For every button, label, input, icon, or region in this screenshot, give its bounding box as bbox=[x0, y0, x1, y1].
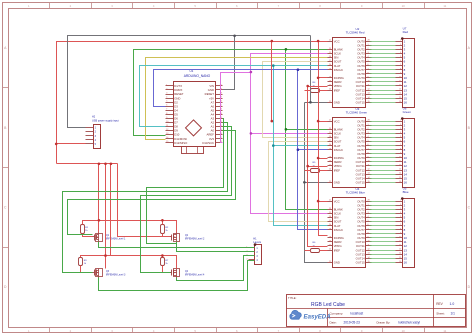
svg-text:3: 3 bbox=[400, 208, 401, 210]
svg-text:3: 3 bbox=[166, 93, 167, 95]
svg-text:Company:: Company: bbox=[330, 312, 344, 316]
svg-text:14: 14 bbox=[166, 137, 168, 139]
svg-text:20: 20 bbox=[329, 249, 331, 251]
arduino U1 right pins bbox=[202, 84, 222, 145]
svg-text:14: 14 bbox=[399, 93, 401, 95]
svg-text:19: 19 bbox=[329, 76, 331, 78]
svg-text:Date:: Date: bbox=[330, 321, 337, 325]
svg-text:VCC: VCC bbox=[334, 39, 340, 43]
svg-text:6: 6 bbox=[400, 220, 401, 222]
svg-text:11: 11 bbox=[399, 81, 401, 83]
svg-text:GND: GND bbox=[334, 261, 340, 265]
svg-text:16: 16 bbox=[329, 161, 331, 163]
svg-text:OUT15: OUT15 bbox=[356, 261, 365, 265]
svg-text:10: 10 bbox=[368, 161, 370, 163]
svg-text:9: 9 bbox=[368, 156, 369, 158]
svg-text:28: 28 bbox=[368, 40, 370, 42]
tlc5940 U2 body bbox=[333, 27, 366, 107]
svg-text:3: 3 bbox=[400, 48, 401, 50]
resistor R2 bbox=[161, 225, 165, 234]
svg-text:Sheet:: Sheet: bbox=[436, 312, 445, 316]
EasyEDA logo bbox=[290, 310, 331, 320]
wire IREF resistors to pins bbox=[305, 91, 328, 251]
svg-text:4: 4 bbox=[400, 132, 401, 134]
svg-text:10: 10 bbox=[402, 4, 406, 8]
svg-text:23: 23 bbox=[329, 128, 331, 130]
svg-text:localhost: localhost bbox=[351, 312, 364, 316]
wire H1 pin4 green bbox=[99, 261, 255, 291]
resistor R5 bbox=[311, 169, 320, 173]
svg-text:IRF9540N Level 4: IRF9540N Level 4 bbox=[185, 273, 205, 276]
title block bbox=[287, 295, 466, 327]
tlc5940 U2 left pins bbox=[328, 39, 344, 104]
svg-text:6: 6 bbox=[166, 105, 167, 107]
svg-text:26: 26 bbox=[329, 216, 331, 218]
wire H1 pin3 green bbox=[177, 256, 255, 281]
svg-text:16: 16 bbox=[404, 101, 408, 105]
connector H1 Layers bbox=[246, 237, 261, 265]
svg-text:Red: Red bbox=[403, 30, 409, 34]
svg-text:7: 7 bbox=[368, 228, 369, 230]
svg-text:13: 13 bbox=[399, 249, 401, 251]
svg-text:21: 21 bbox=[329, 40, 331, 42]
svg-text:10: 10 bbox=[402, 329, 406, 333]
svg-text:D13/SCK: D13/SCK bbox=[202, 141, 214, 145]
svg-text:9: 9 bbox=[400, 72, 401, 74]
svg-text:17: 17 bbox=[329, 220, 331, 222]
tlc5940 U4 right pins OUT0-OUT15 bbox=[356, 199, 372, 264]
svg-text:12: 12 bbox=[399, 165, 401, 167]
svg-text:25: 25 bbox=[329, 132, 331, 134]
svg-text:OUT15: OUT15 bbox=[356, 101, 365, 105]
svg-text:14: 14 bbox=[368, 177, 370, 179]
svg-text:13: 13 bbox=[166, 133, 168, 135]
svg-text:Green: Green bbox=[403, 110, 412, 114]
svg-text:4: 4 bbox=[400, 52, 401, 54]
svg-text:19: 19 bbox=[329, 236, 331, 238]
svg-text:16: 16 bbox=[399, 101, 401, 103]
svg-text:18: 18 bbox=[329, 228, 331, 230]
svg-text:10: 10 bbox=[399, 236, 401, 238]
resistor R4 bbox=[311, 89, 320, 93]
resistor R6 bbox=[311, 249, 320, 253]
svg-text:REV: REV bbox=[436, 302, 443, 306]
svg-text:12: 12 bbox=[368, 249, 370, 251]
svg-text:9: 9 bbox=[400, 232, 401, 234]
svg-text:IRF9540N Level 3: IRF9540N Level 3 bbox=[106, 273, 126, 276]
svg-text:8: 8 bbox=[400, 68, 401, 70]
transistor Q1 bbox=[93, 233, 103, 242]
svg-text:25: 25 bbox=[329, 212, 331, 214]
svg-text:TLC5940 Blue: TLC5940 Blue bbox=[346, 191, 366, 195]
resistor R1 bbox=[81, 225, 85, 234]
svg-text:7: 7 bbox=[400, 64, 401, 66]
svg-text:1: 1 bbox=[368, 124, 369, 126]
svg-text:4: 4 bbox=[166, 97, 167, 99]
svg-text:22: 22 bbox=[329, 101, 331, 103]
svg-text:6: 6 bbox=[368, 144, 369, 146]
svg-text:DSCLK: DSCLK bbox=[334, 148, 343, 152]
svg-text:8: 8 bbox=[400, 228, 401, 230]
svg-text:VCC: VCC bbox=[334, 119, 340, 123]
svg-text:10: 10 bbox=[368, 81, 370, 83]
svg-text:4: 4 bbox=[368, 56, 369, 58]
svg-text:20: 20 bbox=[329, 169, 331, 171]
svg-text:IREF: IREF bbox=[334, 248, 341, 252]
svg-text:4: 4 bbox=[368, 136, 369, 138]
svg-text:19: 19 bbox=[329, 156, 331, 158]
svg-text:2: 2 bbox=[400, 204, 401, 206]
wire layer A2 green bbox=[63, 123, 228, 273]
svg-text:6: 6 bbox=[400, 140, 401, 142]
tlc5940 U3 body bbox=[333, 107, 368, 187]
svg-text:11: 11 bbox=[368, 85, 370, 87]
svg-text:2019-05-23: 2019-05-23 bbox=[344, 321, 361, 325]
svg-text:1: 1 bbox=[166, 84, 167, 86]
svg-text:8: 8 bbox=[166, 113, 167, 115]
svg-text:6: 6 bbox=[368, 64, 369, 66]
wire SIN yellow net bbox=[146, 58, 328, 140]
svg-text:17: 17 bbox=[329, 60, 331, 62]
svg-text:DSCLK: DSCLK bbox=[334, 68, 343, 72]
wire BLANK green net bbox=[134, 50, 328, 210]
arduino U1 usb footprint bbox=[182, 147, 204, 154]
svg-text:9: 9 bbox=[166, 117, 167, 119]
svg-text:7: 7 bbox=[400, 144, 401, 146]
svg-text:OUT15: OUT15 bbox=[356, 181, 365, 185]
svg-text:16: 16 bbox=[399, 181, 401, 183]
svg-text:H1: H1 bbox=[253, 237, 257, 241]
svg-text:7: 7 bbox=[400, 224, 401, 226]
svg-text:5: 5 bbox=[400, 136, 401, 138]
wire SOUT wheat daisy chain bbox=[263, 62, 328, 222]
svg-text:22: 22 bbox=[329, 181, 331, 183]
connector U7 Red bbox=[396, 27, 415, 108]
svg-text:11: 11 bbox=[443, 4, 446, 8]
svg-text:7: 7 bbox=[166, 109, 167, 111]
wire layer A1 green bbox=[141, 127, 232, 273]
svg-text:2: 2 bbox=[368, 208, 369, 210]
svg-text:TITLE:: TITLE: bbox=[288, 296, 297, 300]
svg-text:Blue: Blue bbox=[403, 190, 409, 194]
wire DCPRG VCC red trunk bbox=[272, 42, 328, 236]
svg-text:D12/MISO: D12/MISO bbox=[174, 141, 188, 145]
svg-text:10: 10 bbox=[399, 156, 401, 158]
svg-text:8: 8 bbox=[368, 232, 369, 234]
svg-text:6: 6 bbox=[368, 224, 369, 226]
svg-text:5: 5 bbox=[368, 220, 369, 222]
wire H1 pin2 green bbox=[177, 242, 255, 252]
wire OUT bus blue bbox=[370, 202, 396, 263]
svg-text:RGB Led Cube: RGB Led Cube bbox=[311, 302, 345, 308]
svg-text:USB power supply input: USB power supply input bbox=[92, 119, 119, 122]
svg-text:2: 2 bbox=[368, 48, 369, 50]
svg-text:28: 28 bbox=[368, 120, 370, 122]
svg-text:21: 21 bbox=[329, 200, 331, 202]
svg-text:1: 1 bbox=[400, 120, 401, 122]
svg-text:1/1: 1/1 bbox=[451, 312, 456, 316]
svg-text:GND: GND bbox=[334, 101, 340, 105]
svg-text:12: 12 bbox=[399, 245, 401, 247]
wire OUT bus green bbox=[370, 122, 396, 183]
svg-text:11: 11 bbox=[368, 165, 370, 167]
svg-text:Drawn By:: Drawn By: bbox=[377, 321, 391, 325]
wire SCLK magenta net bbox=[221, 54, 328, 214]
svg-text:13: 13 bbox=[368, 253, 370, 255]
tlc5940 U3 right pins OUT0-OUT15 bbox=[356, 119, 372, 184]
wire rail Q1 Q2 bbox=[83, 221, 177, 237]
svg-text:12: 12 bbox=[368, 89, 370, 91]
svg-text:9: 9 bbox=[368, 76, 369, 78]
svg-text:27: 27 bbox=[329, 245, 331, 247]
svg-text:EasyEDA: EasyEDA bbox=[304, 313, 331, 320]
svg-text:9: 9 bbox=[400, 152, 401, 154]
resistor R7 bbox=[161, 258, 165, 266]
svg-text:15: 15 bbox=[368, 261, 370, 263]
svg-text:5: 5 bbox=[400, 216, 401, 218]
svg-text:13: 13 bbox=[368, 93, 370, 95]
svg-text:IRF9540N Level 2: IRF9540N Level 2 bbox=[185, 238, 205, 241]
svg-text:VCC: VCC bbox=[334, 199, 340, 203]
svg-text:14: 14 bbox=[399, 253, 401, 255]
svg-text:24: 24 bbox=[329, 144, 331, 146]
svg-text:10: 10 bbox=[368, 241, 370, 243]
wire GND arduino to top rail bbox=[223, 36, 235, 90]
svg-text:27: 27 bbox=[329, 165, 331, 167]
tlc5940 U4 body bbox=[333, 187, 366, 267]
svg-text:13: 13 bbox=[368, 173, 370, 175]
svg-text:11: 11 bbox=[399, 241, 401, 243]
svg-text:15: 15 bbox=[399, 97, 401, 99]
svg-text:3: 3 bbox=[368, 212, 369, 214]
svg-text:18: 18 bbox=[329, 148, 331, 150]
svg-text:13: 13 bbox=[399, 89, 401, 91]
svg-text:21: 21 bbox=[329, 120, 331, 122]
svg-text:23: 23 bbox=[329, 48, 331, 50]
svg-text:GND: GND bbox=[334, 181, 340, 185]
svg-text:11: 11 bbox=[443, 329, 446, 333]
svg-text:16: 16 bbox=[404, 261, 408, 265]
tlc5940 U3 left pins bbox=[328, 119, 344, 184]
svg-text:IRF9540N Level 1: IRF9540N Level 1 bbox=[106, 238, 126, 241]
svg-text:2: 2 bbox=[368, 128, 369, 130]
svg-text:13: 13 bbox=[399, 169, 401, 171]
svg-text:16: 16 bbox=[404, 181, 408, 185]
svg-text:18: 18 bbox=[329, 68, 331, 70]
resistor R3 bbox=[79, 258, 83, 266]
svg-text:12: 12 bbox=[166, 129, 168, 131]
svg-text:5: 5 bbox=[368, 140, 369, 142]
svg-text:10: 10 bbox=[399, 76, 401, 78]
svg-text:8: 8 bbox=[368, 72, 369, 74]
svg-text:3: 3 bbox=[400, 128, 401, 130]
connector U6 Green bbox=[396, 107, 415, 188]
svg-text:15: 15 bbox=[368, 101, 370, 103]
svg-text:8: 8 bbox=[400, 148, 401, 150]
svg-text:8: 8 bbox=[368, 152, 369, 154]
wire layer A3 green bbox=[147, 119, 224, 244]
svg-text:3: 3 bbox=[368, 132, 369, 134]
wire GSCLK blue net bbox=[154, 70, 328, 230]
wire OUT bus red bbox=[370, 42, 396, 103]
svg-text:16: 16 bbox=[399, 261, 401, 263]
svg-text:7: 7 bbox=[368, 68, 369, 70]
svg-text:1.0: 1.0 bbox=[450, 302, 455, 306]
svg-text:15: 15 bbox=[399, 177, 401, 179]
svg-text:26: 26 bbox=[329, 56, 331, 58]
svg-text:6: 6 bbox=[400, 60, 401, 62]
svg-text:2: 2 bbox=[400, 124, 401, 126]
svg-text:25: 25 bbox=[329, 52, 331, 54]
svg-text:9: 9 bbox=[368, 236, 369, 238]
wire H1 pin1 green bbox=[99, 242, 255, 248]
svg-text:23: 23 bbox=[329, 208, 331, 210]
svg-text:DSCLK: DSCLK bbox=[334, 228, 343, 232]
svg-text:12: 12 bbox=[399, 85, 401, 87]
transistor Q4 bbox=[171, 269, 180, 278]
svg-text:7: 7 bbox=[368, 148, 369, 150]
wire GND chips vertical bbox=[305, 36, 328, 263]
svg-text:3: 3 bbox=[368, 52, 369, 54]
svg-text:12: 12 bbox=[368, 169, 370, 171]
svg-text:14: 14 bbox=[368, 257, 370, 259]
wire GND black from USB bbox=[68, 36, 311, 128]
svg-text:16: 16 bbox=[329, 81, 331, 83]
svg-text:16: 16 bbox=[329, 241, 331, 243]
svg-text:IREF: IREF bbox=[334, 88, 341, 92]
wire gate rail L0 bbox=[57, 164, 177, 269]
svg-text:1: 1 bbox=[368, 204, 369, 206]
svg-text:5: 5 bbox=[368, 60, 369, 62]
svg-text:22: 22 bbox=[329, 261, 331, 263]
svg-text:1: 1 bbox=[368, 44, 369, 46]
svg-text:24: 24 bbox=[329, 224, 331, 226]
connector U5 Blue bbox=[396, 187, 415, 268]
transistor Q3 bbox=[93, 269, 103, 278]
transistor Q2 bbox=[171, 233, 180, 242]
svg-text:11: 11 bbox=[399, 161, 401, 163]
arduino U1 body bbox=[174, 69, 216, 146]
svg-text:20: 20 bbox=[329, 89, 331, 91]
wire VCC red from USB bbox=[57, 42, 328, 164]
svg-text:15: 15 bbox=[399, 257, 401, 259]
svg-text:14: 14 bbox=[368, 97, 370, 99]
svg-text:15: 15 bbox=[368, 181, 370, 183]
svg-text:4: 4 bbox=[400, 212, 401, 214]
svg-text:24: 24 bbox=[329, 64, 331, 66]
svg-text:2: 2 bbox=[400, 44, 401, 46]
wire VPRG red trunk bbox=[308, 87, 328, 247]
svg-text:5: 5 bbox=[166, 101, 167, 103]
svg-text:10: 10 bbox=[166, 121, 168, 123]
wire layer A0 green bbox=[68, 131, 236, 235]
svg-text:1: 1 bbox=[400, 200, 401, 202]
svg-text:ARDUINO_NANO: ARDUINO_NANO bbox=[184, 74, 211, 78]
svg-text:11: 11 bbox=[368, 245, 370, 247]
svg-text:17: 17 bbox=[329, 140, 331, 142]
svg-text:28: 28 bbox=[368, 200, 370, 202]
wire rail Q3 Q4 bbox=[81, 256, 171, 273]
wire XLAT cyan net bbox=[140, 66, 328, 226]
svg-text:26: 26 bbox=[329, 136, 331, 138]
svg-text:TLC5940 Green: TLC5940 Green bbox=[346, 111, 368, 115]
arduino U1 center diamond bbox=[186, 120, 202, 136]
svg-text:27: 27 bbox=[329, 85, 331, 87]
tlc5940 U2 right pins OUT0-OUT15 bbox=[356, 39, 372, 104]
svg-text:1: 1 bbox=[400, 40, 401, 42]
svg-text:5: 5 bbox=[400, 56, 401, 58]
connector H2 USB power supply input bbox=[86, 116, 119, 149]
svg-text:4: 4 bbox=[368, 216, 369, 218]
svg-text:14: 14 bbox=[399, 173, 401, 175]
svg-text:15: 15 bbox=[166, 141, 168, 143]
svg-text:TLC5940 Red: TLC5940 Red bbox=[346, 31, 365, 35]
tlc5940 U4 left pins bbox=[328, 199, 344, 264]
arduino U1 left pins bbox=[166, 84, 189, 145]
svg-text:IREF: IREF bbox=[334, 168, 341, 172]
svg-text:11: 11 bbox=[166, 125, 168, 127]
svg-text:lukinchuk.vasyl: lukinchuk.vasyl bbox=[399, 321, 421, 325]
svg-text:2: 2 bbox=[166, 89, 167, 91]
